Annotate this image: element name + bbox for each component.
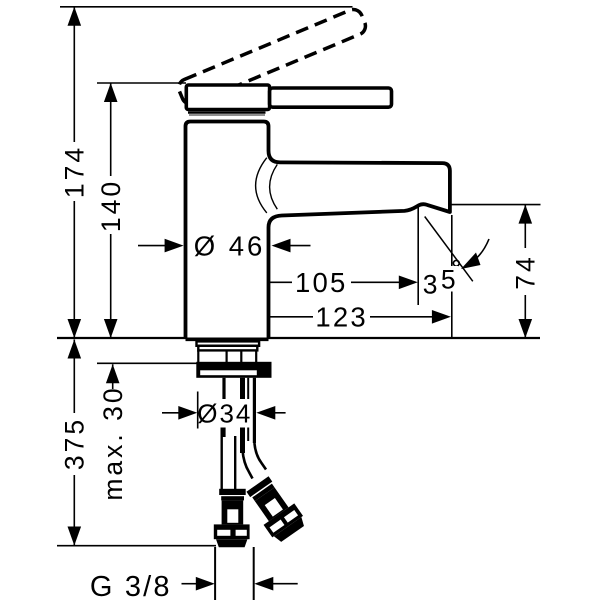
svg-text:G 3/8: G 3/8 (90, 571, 172, 600)
svg-text:174: 174 (60, 145, 90, 198)
svg-text:Ø 46: Ø 46 (194, 230, 266, 261)
svg-text:5: 5 (441, 265, 458, 295)
svg-text:max. 30: max. 30 (98, 385, 128, 500)
svg-text:123: 123 (315, 302, 367, 333)
svg-text:140: 140 (96, 179, 126, 232)
svg-text:3: 3 (423, 269, 440, 299)
svg-text:74: 74 (511, 254, 541, 289)
svg-text:Ø34: Ø34 (197, 398, 252, 428)
svg-text:105: 105 (295, 267, 347, 298)
svg-text:375: 375 (60, 417, 90, 470)
